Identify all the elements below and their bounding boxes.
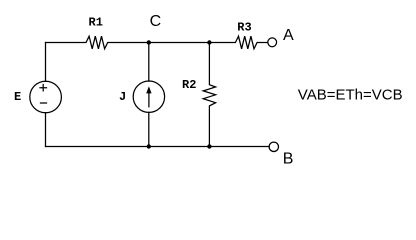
svg-text:B: B [283, 150, 294, 167]
svg-text:VAB=ETh=VCB: VAB=ETh=VCB [298, 86, 403, 103]
svg-text:E: E [14, 90, 21, 104]
svg-text:A: A [283, 27, 294, 44]
svg-text:C: C [150, 13, 162, 30]
svg-text:R2: R2 [182, 78, 196, 92]
svg-text:R1: R1 [89, 16, 103, 30]
svg-text:R3: R3 [237, 20, 251, 34]
svg-text:J: J [119, 90, 126, 104]
